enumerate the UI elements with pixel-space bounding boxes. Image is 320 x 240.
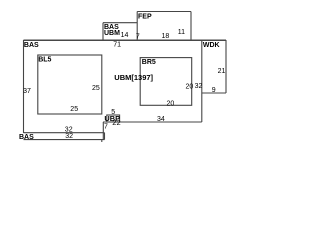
- svg-text:5: 5: [111, 109, 115, 116]
- bottom strip right cap: [104, 133, 106, 140]
- WDK box right: [225, 40, 227, 93]
- svg-text:WDK: WDK: [203, 42, 220, 49]
- main BAS outline top wall: [24, 39, 227, 41]
- FEP box right: [190, 12, 192, 41]
- main BAS outline left wall: [23, 40, 25, 133]
- svg-text:7: 7: [104, 124, 108, 131]
- BAS/UBM box left: [102, 23, 104, 40]
- svg-text:UBM: UBM: [104, 30, 120, 37]
- FEP box top: [137, 11, 191, 13]
- svg-text:25: 25: [70, 106, 78, 113]
- svg-text:BAS: BAS: [19, 134, 34, 141]
- BAS/UBM box top: [103, 22, 137, 24]
- svg-text:20: 20: [186, 83, 194, 90]
- wall x=103 (dim 7): [102, 122, 104, 140]
- svg-text:FEP: FEP: [138, 14, 152, 21]
- main BAS outline bottom-right wall: [103, 121, 202, 123]
- WDK box bottom: [202, 92, 226, 94]
- svg-text:71: 71: [113, 41, 121, 48]
- bottom strip lower wall (dim 32): [24, 139, 105, 141]
- svg-text:32: 32: [65, 133, 73, 140]
- BL5 box: [38, 55, 102, 114]
- svg-text:BL5: BL5: [38, 57, 51, 64]
- svg-text:22: 22: [112, 118, 120, 127]
- small tick below strip: [101, 140, 103, 142]
- svg-text:21: 21: [218, 68, 226, 75]
- svg-text:BAS: BAS: [24, 42, 39, 49]
- svg-text:25: 25: [92, 85, 100, 92]
- svg-text:11: 11: [178, 29, 185, 36]
- svg-text:18: 18: [162, 33, 170, 40]
- svg-text:9: 9: [212, 87, 216, 94]
- svg-text:BR5: BR5: [142, 59, 156, 66]
- svg-text:32: 32: [195, 83, 203, 90]
- svg-text:UBM[1397]: UBM[1397]: [114, 73, 153, 82]
- svg-text:20: 20: [167, 100, 175, 107]
- svg-text:34: 34: [157, 116, 165, 123]
- svg-text:14: 14: [121, 32, 129, 39]
- svg-text:37: 37: [23, 88, 31, 95]
- main BAS outline right wall: [201, 40, 203, 122]
- BR5 box: [140, 58, 192, 106]
- bottom strip upper wall (dim 32): [24, 132, 105, 134]
- FEP box left / BAS-UBM right shared wall: [136, 12, 138, 41]
- UBP box: [107, 115, 120, 122]
- svg-text:7: 7: [136, 33, 140, 40]
